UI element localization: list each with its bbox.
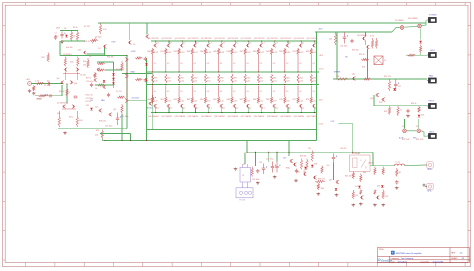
resistor R53 — [97, 84, 105, 86]
transistor Q32 — [180, 104, 183, 108]
svg-text:Q30 2SA194: Q30 2SA194 — [148, 115, 159, 118]
wire array emitter rail upper — [147, 71, 320, 73]
svg-text:C1: C1 — [55, 32, 57, 34]
resistor R18 — [135, 57, 143, 59]
svg-text:R14 330: R14 330 — [107, 56, 113, 58]
svg-text:Q21 2SC520: Q21 2SC520 — [293, 38, 304, 40]
svg-text:0.22: 0.22 — [247, 80, 251, 82]
wire VAS rail — [126, 56, 128, 129]
wire collector drop — [261, 41, 263, 43]
svg-text:R69: R69 — [266, 99, 269, 101]
svg-text:R63: R63 — [187, 99, 190, 101]
svg-text:EasyEDA: EasyEDA — [381, 258, 392, 262]
transistor Q21 — [299, 44, 302, 48]
svg-text:0.5: 0.5 — [312, 63, 314, 65]
svg-text:Q17: Q17 — [303, 171, 306, 173]
transistor Q7 — [125, 99, 128, 103]
resistor R45 — [360, 190, 362, 195]
diode D19 — [335, 188, 338, 190]
svg-text:OUT-: OUT- — [319, 123, 324, 125]
svg-text:RP1 2k: RP1 2k — [84, 41, 90, 43]
svg-text:R36a: R36a — [286, 168, 290, 170]
voltage source AC1 — [28, 82, 32, 86]
svg-text:Q13 2SC520: Q13 2SC520 — [188, 38, 199, 40]
wire collector drop — [168, 41, 170, 43]
svg-text:0.5: 0.5 — [246, 63, 248, 65]
svg-text:0.5: 0.5 — [246, 91, 248, 93]
wire led drop b — [418, 119, 420, 129]
svg-text:U2: U2 — [242, 175, 244, 177]
wire collector drop — [247, 41, 249, 43]
resistor R41 — [165, 48, 167, 72]
svg-text:R60: R60 — [247, 77, 250, 79]
resistor R34 — [418, 106, 420, 113]
resistor R31 — [388, 79, 390, 91]
svg-text:R32: R32 — [384, 111, 387, 113]
svg-text:D18: D18 — [314, 164, 317, 166]
svg-text:4.7: 4.7 — [289, 43, 292, 45]
wire to speaker jack — [405, 164, 426, 167]
transistor Q5 — [125, 58, 128, 62]
junction dots — [168, 40, 169, 41]
svg-text:Q1 2N5401: Q1 2N5401 — [63, 54, 72, 56]
resistor R32 — [388, 106, 390, 115]
svg-text:SPK OUT+: SPK OUT+ — [402, 139, 410, 141]
capacitor C19 — [256, 169, 259, 173]
diode D25 — [90, 108, 93, 110]
resistor R4 — [76, 31, 78, 42]
svg-text:Q31 2SA194: Q31 2SA194 — [161, 115, 172, 118]
svg-text:R45: R45 — [213, 51, 216, 53]
svg-text:D4 1N4148: D4 1N4148 — [116, 69, 124, 71]
wire collector drop lower — [181, 108, 183, 112]
resistor R30 — [363, 78, 371, 80]
transistor Q28 — [149, 102, 152, 106]
svg-text:R55: R55 — [180, 77, 183, 79]
resistor R25 — [361, 58, 369, 60]
transistor Q20 — [286, 44, 289, 48]
svg-text:4.7: 4.7 — [223, 43, 226, 45]
transistor Q11 — [366, 45, 369, 49]
transistor Q15 — [220, 44, 223, 48]
wire collector drop lower — [247, 108, 249, 112]
svg-text:R40: R40 — [321, 188, 324, 190]
wire psu drop 5 — [268, 152, 270, 162]
wire tail — [66, 84, 68, 103]
resistor R61 — [165, 86, 167, 104]
svg-text:R65: R65 — [213, 99, 216, 101]
resistor mid — [178, 74, 180, 83]
wire cs link — [62, 108, 76, 110]
svg-text:0.5: 0.5 — [273, 91, 275, 93]
transistor Q4b — [72, 105, 75, 109]
transistor Q19 — [336, 180, 339, 184]
connector J2 — [427, 183, 433, 189]
transistor Q24 — [94, 78, 97, 82]
svg-text:0.22: 0.22 — [154, 80, 158, 82]
svg-text:0.22: 0.22 — [273, 101, 277, 103]
ground GND12 — [359, 203, 363, 206]
wire array collector rail bottom — [151, 112, 317, 114]
svg-text:1k: 1k — [95, 88, 97, 90]
resistor R55 — [66, 88, 68, 97]
svg-text:10k: 10k — [329, 38, 332, 40]
wire psu drop 6 — [276, 152, 278, 161]
capacitor C25 — [395, 180, 398, 184]
junction dots — [221, 40, 222, 41]
wire bias chain link — [365, 41, 367, 46]
wire collector drop — [181, 41, 183, 43]
svg-text:0.22: 0.22 — [180, 101, 184, 103]
svg-text:4.7: 4.7 — [196, 108, 199, 110]
wire out net — [339, 122, 353, 124]
svg-text:R52: R52 — [306, 51, 309, 53]
wire diff base — [61, 85, 63, 96]
svg-text:0.22: 0.22 — [233, 80, 237, 82]
electrolytic capacitor C30 — [151, 95, 154, 104]
svg-text:R47: R47 — [240, 51, 243, 53]
svg-text:C23 470u: C23 470u — [266, 159, 273, 161]
svg-text:D25: D25 — [86, 105, 89, 107]
transistor Q25 — [83, 51, 86, 55]
transistor Q1a — [64, 68, 67, 72]
svg-text:4.7: 4.7 — [236, 108, 239, 110]
svg-text:0.22: 0.22 — [180, 80, 184, 82]
transistor Q26 — [128, 41, 131, 45]
resistor R40 — [152, 48, 154, 72]
wire bias to ltp rail — [59, 41, 61, 56]
resistor R19 — [135, 78, 143, 80]
transistor Q4a — [62, 105, 65, 109]
svg-text:4.7: 4.7 — [262, 108, 265, 110]
wire positive supply rail top — [98, 22, 426, 24]
svg-text:R5a 100: R5a 100 — [66, 47, 72, 49]
wire collector drop lower — [194, 108, 196, 112]
resistor R48 — [257, 48, 259, 72]
resistor R44 — [360, 174, 362, 183]
diode D2 — [103, 80, 106, 82]
resistor R24 — [375, 38, 377, 49]
diode D21 — [145, 63, 148, 65]
svg-text:0.5: 0.5 — [299, 91, 301, 93]
wire feedback lower — [35, 95, 62, 97]
transistor Q37 — [246, 104, 249, 108]
svg-text:C19 100n: C19 100n — [252, 179, 259, 181]
transistor Q19 — [273, 44, 276, 48]
wire array right vertical — [316, 32, 318, 140]
diode D22 — [145, 79, 148, 81]
svg-text:2021-08-14: 2021-08-14 — [398, 261, 408, 263]
wire collector drop lower — [300, 108, 302, 112]
svg-text:R11a: R11a — [69, 117, 73, 119]
wire driver output drop — [152, 73, 154, 129]
svg-text:4.7: 4.7 — [170, 43, 173, 45]
svg-text:0.22: 0.22 — [194, 101, 198, 103]
resistor mid — [191, 74, 193, 83]
electrolytic capacitor C2 — [60, 32, 63, 39]
svg-text:R67: R67 — [240, 99, 243, 101]
diode D20 — [358, 186, 361, 188]
svg-text:+85V: +85V — [318, 28, 323, 30]
capacitor C18 — [406, 109, 409, 113]
wire array collector rail top — [151, 40, 317, 42]
wire — [407, 130, 417, 132]
svg-text:4.7: 4.7 — [262, 43, 265, 45]
svg-text:R49: R49 — [266, 51, 269, 53]
svg-text:0.5: 0.5 — [286, 91, 288, 93]
svg-text:L1 2u: L1 2u — [396, 162, 401, 164]
transistor Q12 — [180, 44, 183, 48]
transistor Q11 — [167, 44, 170, 48]
wire collector drop — [274, 41, 276, 43]
svg-text:0.5: 0.5 — [167, 63, 169, 65]
transistor Q40 — [286, 104, 289, 108]
svg-text:4.7: 4.7 — [170, 108, 173, 110]
svg-text:Q20: Q20 — [355, 195, 358, 197]
svg-text:C7 47u: C7 47u — [116, 91, 122, 93]
wire collector drop lower — [234, 108, 236, 112]
resistor R43 — [352, 190, 354, 199]
svg-text:R40: R40 — [147, 51, 150, 53]
ground GND13 — [373, 204, 377, 207]
svg-text:C6: C6 — [89, 56, 91, 58]
ground GND6 — [234, 168, 238, 171]
svg-text:0.5: 0.5 — [180, 91, 182, 93]
wire collector drop lower — [208, 108, 210, 112]
svg-text:R57: R57 — [207, 77, 210, 79]
wire nfb join — [102, 139, 105, 141]
svg-text:47: 47 — [69, 92, 71, 94]
svg-text:Q10 MJE340: Q10 MJE340 — [357, 35, 367, 37]
svg-text:AC1: AC1 — [27, 78, 31, 81]
svg-text:akolozyan85: akolozyan85 — [433, 261, 444, 263]
capacitor C5 — [48, 94, 52, 97]
svg-text:SPK OUT-: SPK OUT- — [416, 139, 424, 141]
svg-text:R61: R61 — [260, 77, 263, 79]
wire nfb — [100, 133, 130, 135]
wire — [425, 186, 426, 188]
svg-text:R3 1k: R3 1k — [73, 27, 78, 29]
svg-text:0.5: 0.5 — [273, 63, 275, 65]
svg-text:4.7: 4.7 — [236, 43, 239, 45]
resistor R8 — [64, 57, 66, 67]
wire vas tail drop — [121, 114, 123, 140]
wire collector drop — [194, 41, 196, 43]
svg-text:4.7: 4.7 — [302, 108, 305, 110]
resistor R42 — [178, 48, 180, 72]
svg-text:R70: R70 — [279, 99, 282, 101]
ground GND9 — [294, 179, 298, 182]
svg-text:Q11 2SC520: Q11 2SC520 — [161, 38, 172, 40]
relay K1 — [350, 155, 371, 172]
diode D11 — [419, 41, 422, 43]
ground GND14 — [381, 204, 385, 207]
svg-text:4.7: 4.7 — [156, 43, 159, 45]
diode D13 — [418, 115, 421, 117]
junction dots — [274, 40, 275, 41]
svg-text:R44: R44 — [200, 51, 203, 53]
junction dots — [208, 40, 209, 41]
svg-text:SPK+: SPK+ — [427, 169, 433, 171]
wire drive to array — [122, 72, 153, 74]
resistor R20 — [101, 130, 103, 139]
wire collector drop lower — [155, 108, 157, 112]
resistor R27 — [420, 45, 422, 54]
transistor Q15 — [290, 159, 293, 163]
junction dots — [301, 40, 302, 41]
resistor mid — [204, 74, 206, 83]
resistor R68 — [257, 86, 259, 104]
capacitor C4 — [73, 95, 77, 98]
resistor R6 — [38, 95, 47, 97]
wire bias to thermal row — [367, 49, 369, 79]
svg-text:R42: R42 — [174, 51, 177, 53]
capacitor C26 — [295, 169, 298, 173]
svg-text:Q33 2SA194: Q33 2SA194 — [188, 115, 199, 118]
transistor Q10 — [154, 44, 157, 48]
LED D10 — [418, 24, 422, 28]
wire collector drop lower — [287, 108, 289, 112]
inductor L1 — [395, 164, 405, 166]
diode D6 — [112, 82, 115, 84]
wire collector drop lower — [168, 108, 170, 112]
svg-text:Q2b: Q2b — [74, 83, 77, 85]
resistor mid — [297, 74, 299, 83]
svg-text:R46: R46 — [227, 51, 230, 53]
transistor Q12 — [352, 77, 355, 81]
svg-text:R66: R66 — [227, 99, 230, 101]
resistor R46 — [231, 48, 233, 72]
svg-text:4.7: 4.7 — [209, 43, 212, 45]
svg-text:0.5: 0.5 — [286, 63, 288, 65]
transistor Q21 — [99, 109, 102, 113]
svg-text:0.5: 0.5 — [180, 63, 182, 65]
svg-text:R72: R72 — [306, 99, 309, 101]
svg-text:LED1: LED1 — [430, 50, 436, 52]
resistor R47 — [374, 190, 376, 195]
svg-text:R62: R62 — [174, 99, 177, 101]
connector CN2 — [427, 54, 429, 56]
svg-text:4.7k: 4.7k — [355, 186, 358, 188]
wire psu drop 1 — [246, 140, 248, 152]
svg-text:0.5: 0.5 — [193, 91, 195, 93]
ground GND5 — [406, 115, 410, 118]
svg-text:D13: D13 — [421, 114, 424, 116]
svg-text:D7: D7 — [384, 60, 386, 62]
wire psu drop 2 — [288, 140, 290, 156]
svg-text:R64: R64 — [299, 77, 302, 79]
svg-text:0.5: 0.5 — [207, 91, 209, 93]
transistor Q22 — [109, 113, 112, 117]
svg-text:R61: R61 — [160, 99, 163, 101]
svg-text:Q35 2SA194: Q35 2SA194 — [214, 115, 225, 118]
svg-text:Q2 2N5551: Q2 2N5551 — [57, 102, 66, 104]
resistor mid — [257, 74, 259, 83]
wire driver drop 2 — [146, 23, 148, 34]
svg-text:Q2a: Q2a — [57, 78, 60, 80]
junction dots — [195, 40, 196, 41]
svg-text:Q20 2SC520: Q20 2SC520 — [280, 38, 291, 40]
LED D14 — [403, 129, 407, 133]
svg-text:Q40 2SA194: Q40 2SA194 — [280, 115, 291, 118]
resistor R62 — [178, 86, 180, 104]
svg-text:REV:: REV: — [451, 253, 456, 255]
wire VAS supply — [315, 31, 392, 33]
svg-text:0.5: 0.5 — [193, 63, 195, 65]
svg-text:0.22: 0.22 — [233, 101, 237, 103]
svg-text:Q41 2SA194: Q41 2SA194 — [293, 115, 304, 118]
wire collector drop — [234, 41, 236, 43]
resistor mid — [271, 74, 273, 83]
resistor mid — [218, 74, 220, 83]
svg-text:D9 GREEN: D9 GREEN — [395, 20, 404, 22]
wire mid branch — [95, 84, 114, 86]
capacitor C8b — [54, 35, 57, 39]
svg-text:4.7: 4.7 — [289, 108, 292, 110]
svg-text:R65: R65 — [313, 77, 316, 79]
ground GND8 — [317, 193, 321, 196]
junction dots psu bus — [246, 152, 247, 153]
svg-text:C9 100n: C9 100n — [95, 36, 102, 38]
svg-text:C6 22p: C6 22p — [80, 74, 86, 76]
resistor R60 — [321, 166, 323, 174]
wire mirror collector b — [77, 71, 79, 80]
ground GND15 — [395, 187, 399, 190]
resistor R47 — [244, 48, 246, 72]
resistor R66 — [231, 86, 233, 104]
svg-text:TITLE:: TITLE: — [379, 249, 385, 251]
resistor R1 — [36, 82, 45, 84]
transistor Q31 — [167, 104, 170, 108]
svg-text:Q36 2SA194: Q36 2SA194 — [227, 115, 238, 118]
resistor R70 — [284, 86, 286, 104]
resistor R9 — [77, 57, 79, 67]
svg-text:Q37 2SA194: Q37 2SA194 — [241, 115, 252, 118]
svg-text:Q10 2SC520: Q10 2SC520 — [148, 38, 159, 40]
capacitor C10 — [90, 83, 93, 87]
transistor Q16 — [293, 163, 296, 167]
resistor mid — [244, 74, 246, 83]
connector CN3 — [427, 80, 429, 82]
svg-text:Q9: Q9 — [133, 44, 135, 46]
svg-text:R18a 100: R18a 100 — [99, 120, 106, 122]
svg-text:D17: D17 — [416, 126, 419, 128]
resistor R48 — [382, 167, 384, 176]
svg-text:4.7: 4.7 — [209, 108, 212, 110]
wire indicator chain — [420, 29, 422, 40]
resistor R49 — [270, 48, 272, 72]
wire psu drop 3 — [244, 152, 246, 164]
svg-text:R68: R68 — [253, 99, 256, 101]
connector J1 — [427, 162, 433, 168]
svg-text:R31 4.7k: R31 4.7k — [384, 76, 391, 78]
svg-text:R59: R59 — [233, 77, 236, 79]
transistor Q35 — [220, 104, 223, 108]
wire VAS pin chain — [126, 58, 128, 102]
transistor Q34 — [206, 104, 209, 108]
svg-text:0.22: 0.22 — [220, 80, 224, 82]
svg-text:R60: R60 — [147, 99, 150, 101]
svg-text:C3 100p: C3 100p — [44, 85, 50, 87]
resistor mid — [231, 74, 233, 83]
svg-text:R42 10k: R42 10k — [345, 176, 351, 178]
svg-text:4.7: 4.7 — [156, 108, 159, 110]
wire mirror link — [63, 73, 80, 75]
resistor R23 — [371, 38, 373, 49]
diode D5 — [112, 78, 115, 80]
wire driver bias — [87, 53, 105, 55]
resistor R67 — [244, 86, 246, 104]
